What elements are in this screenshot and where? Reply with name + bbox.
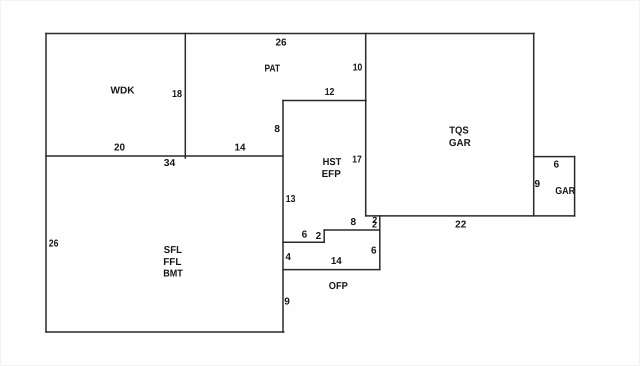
svg-text:14: 14 [331,256,342,267]
svg-text:BMT: BMT [163,269,183,280]
svg-text:HST: HST [323,157,342,168]
svg-text:WDK: WDK [111,86,136,97]
svg-text:2: 2 [372,220,377,230]
svg-text:8: 8 [274,124,280,135]
wire GAR right [533,34,535,216]
svg-text:6: 6 [371,246,377,257]
svg-text:SFL: SFL [164,245,182,256]
svg-text:FFL: FFL [163,257,181,268]
wire small garage right [574,157,576,216]
svg-text:14: 14 [235,143,246,154]
svg-text:10: 10 [353,63,363,74]
wire vertical x283 HST left / SFL right [282,101,284,333]
svg-text:26: 26 [276,38,287,49]
wire mid horizontal 34 [46,155,283,157]
svg-text:6: 6 [302,229,308,240]
wire SFL bottom [46,331,284,333]
svg-text:TQS: TQS [449,126,469,137]
wire OFP bottom [283,269,380,271]
svg-text:6: 6 [554,159,560,170]
svg-text:13: 13 [286,194,296,205]
svg-text:GAR: GAR [449,138,472,149]
svg-text:17: 17 [352,154,362,165]
wire horizontal 6 step [283,241,324,243]
svg-text:PAT: PAT [265,64,281,75]
wire horizontal 8 step [324,229,380,231]
svg-text:8: 8 [351,217,357,228]
svg-text:4: 4 [285,252,291,263]
wire left edge WDK+SFL [45,34,47,333]
wire divider WDK/PAT [184,34,186,159]
svg-text:OFP: OFP [329,281,348,292]
svg-text:9: 9 [284,296,290,307]
wire OFP right [379,216,381,270]
svg-text:2: 2 [316,231,322,242]
svg-text:20: 20 [114,143,125,154]
svg-text:18: 18 [172,89,182,100]
wire top edge WDK+PAT+GAR [46,33,534,35]
wire vertical x366 PAT right / GAR left [365,34,367,216]
wire vertical 2 step [323,230,325,242]
svg-text:GAR: GAR [555,186,576,197]
wire horizontal 12 step [283,100,366,102]
wire small garage top [534,156,575,158]
svg-text:9: 9 [535,179,541,190]
svg-text:12: 12 [325,87,335,98]
svg-text:26: 26 [49,238,59,249]
svg-text:22: 22 [455,219,467,230]
svg-text:34: 34 [164,158,176,169]
wire GAR bottom [366,215,575,217]
svg-text:EFP: EFP [322,169,342,180]
